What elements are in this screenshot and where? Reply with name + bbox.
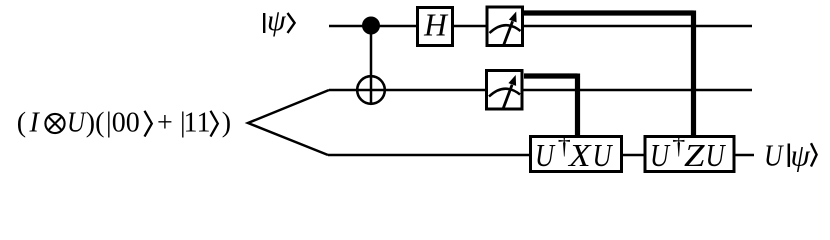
wire classical from top measurement to U†ZU: [523, 11, 694, 136]
svg-text:)(: )(: [86, 108, 105, 139]
gate H: [418, 8, 453, 46]
svg-text:U: U: [67, 108, 87, 139]
wire top qubit: [329, 25, 752, 28]
gate measurement top: [487, 7, 523, 46]
wire bottom qubit: [328, 154, 754, 157]
svg-text:U: U: [535, 137, 556, 173]
wire fan from input label to middle and bottom wires: [248, 90, 329, 155]
symbol rangle 2: [211, 111, 218, 137]
wire middle qubit: [329, 89, 752, 92]
svg-text:U: U: [764, 138, 785, 173]
svg-text:11: 11: [184, 108, 211, 139]
label (I ⊗ U)(|00> + |11>) input: [17, 108, 231, 139]
gate measurement middle: [487, 71, 523, 110]
wire classical from middle measurement to U†XU: [524, 74, 578, 136]
svg-text:Z: Z: [684, 137, 706, 173]
svg-text:U: U: [650, 137, 671, 173]
svg-text:U: U: [706, 137, 727, 173]
svg-text:00: 00: [112, 108, 140, 139]
symbol otimes: [45, 114, 64, 133]
svg-text:I: I: [29, 108, 41, 139]
wire CNOT vertical: [370, 26, 373, 104]
svg-text:ψ: ψ: [791, 138, 811, 173]
label U|psi> output: [764, 138, 817, 173]
svg-text:|: |: [106, 108, 112, 139]
svg-text:X: X: [567, 137, 592, 173]
svg-text:(: (: [17, 108, 26, 139]
svg-text:U: U: [593, 137, 614, 173]
gate U†XU: [531, 130, 622, 173]
gate U†ZU: [645, 130, 734, 173]
svg-text:H: H: [423, 8, 449, 43]
label |psi> top input: [264, 4, 294, 37]
node control dot: [362, 17, 380, 35]
svg-text:ψ: ψ: [267, 4, 287, 37]
svg-text:): ): [222, 108, 231, 139]
symbol rangle 1: [145, 111, 152, 137]
gate CNOT target: [357, 76, 385, 104]
svg-text:+: +: [157, 108, 173, 139]
